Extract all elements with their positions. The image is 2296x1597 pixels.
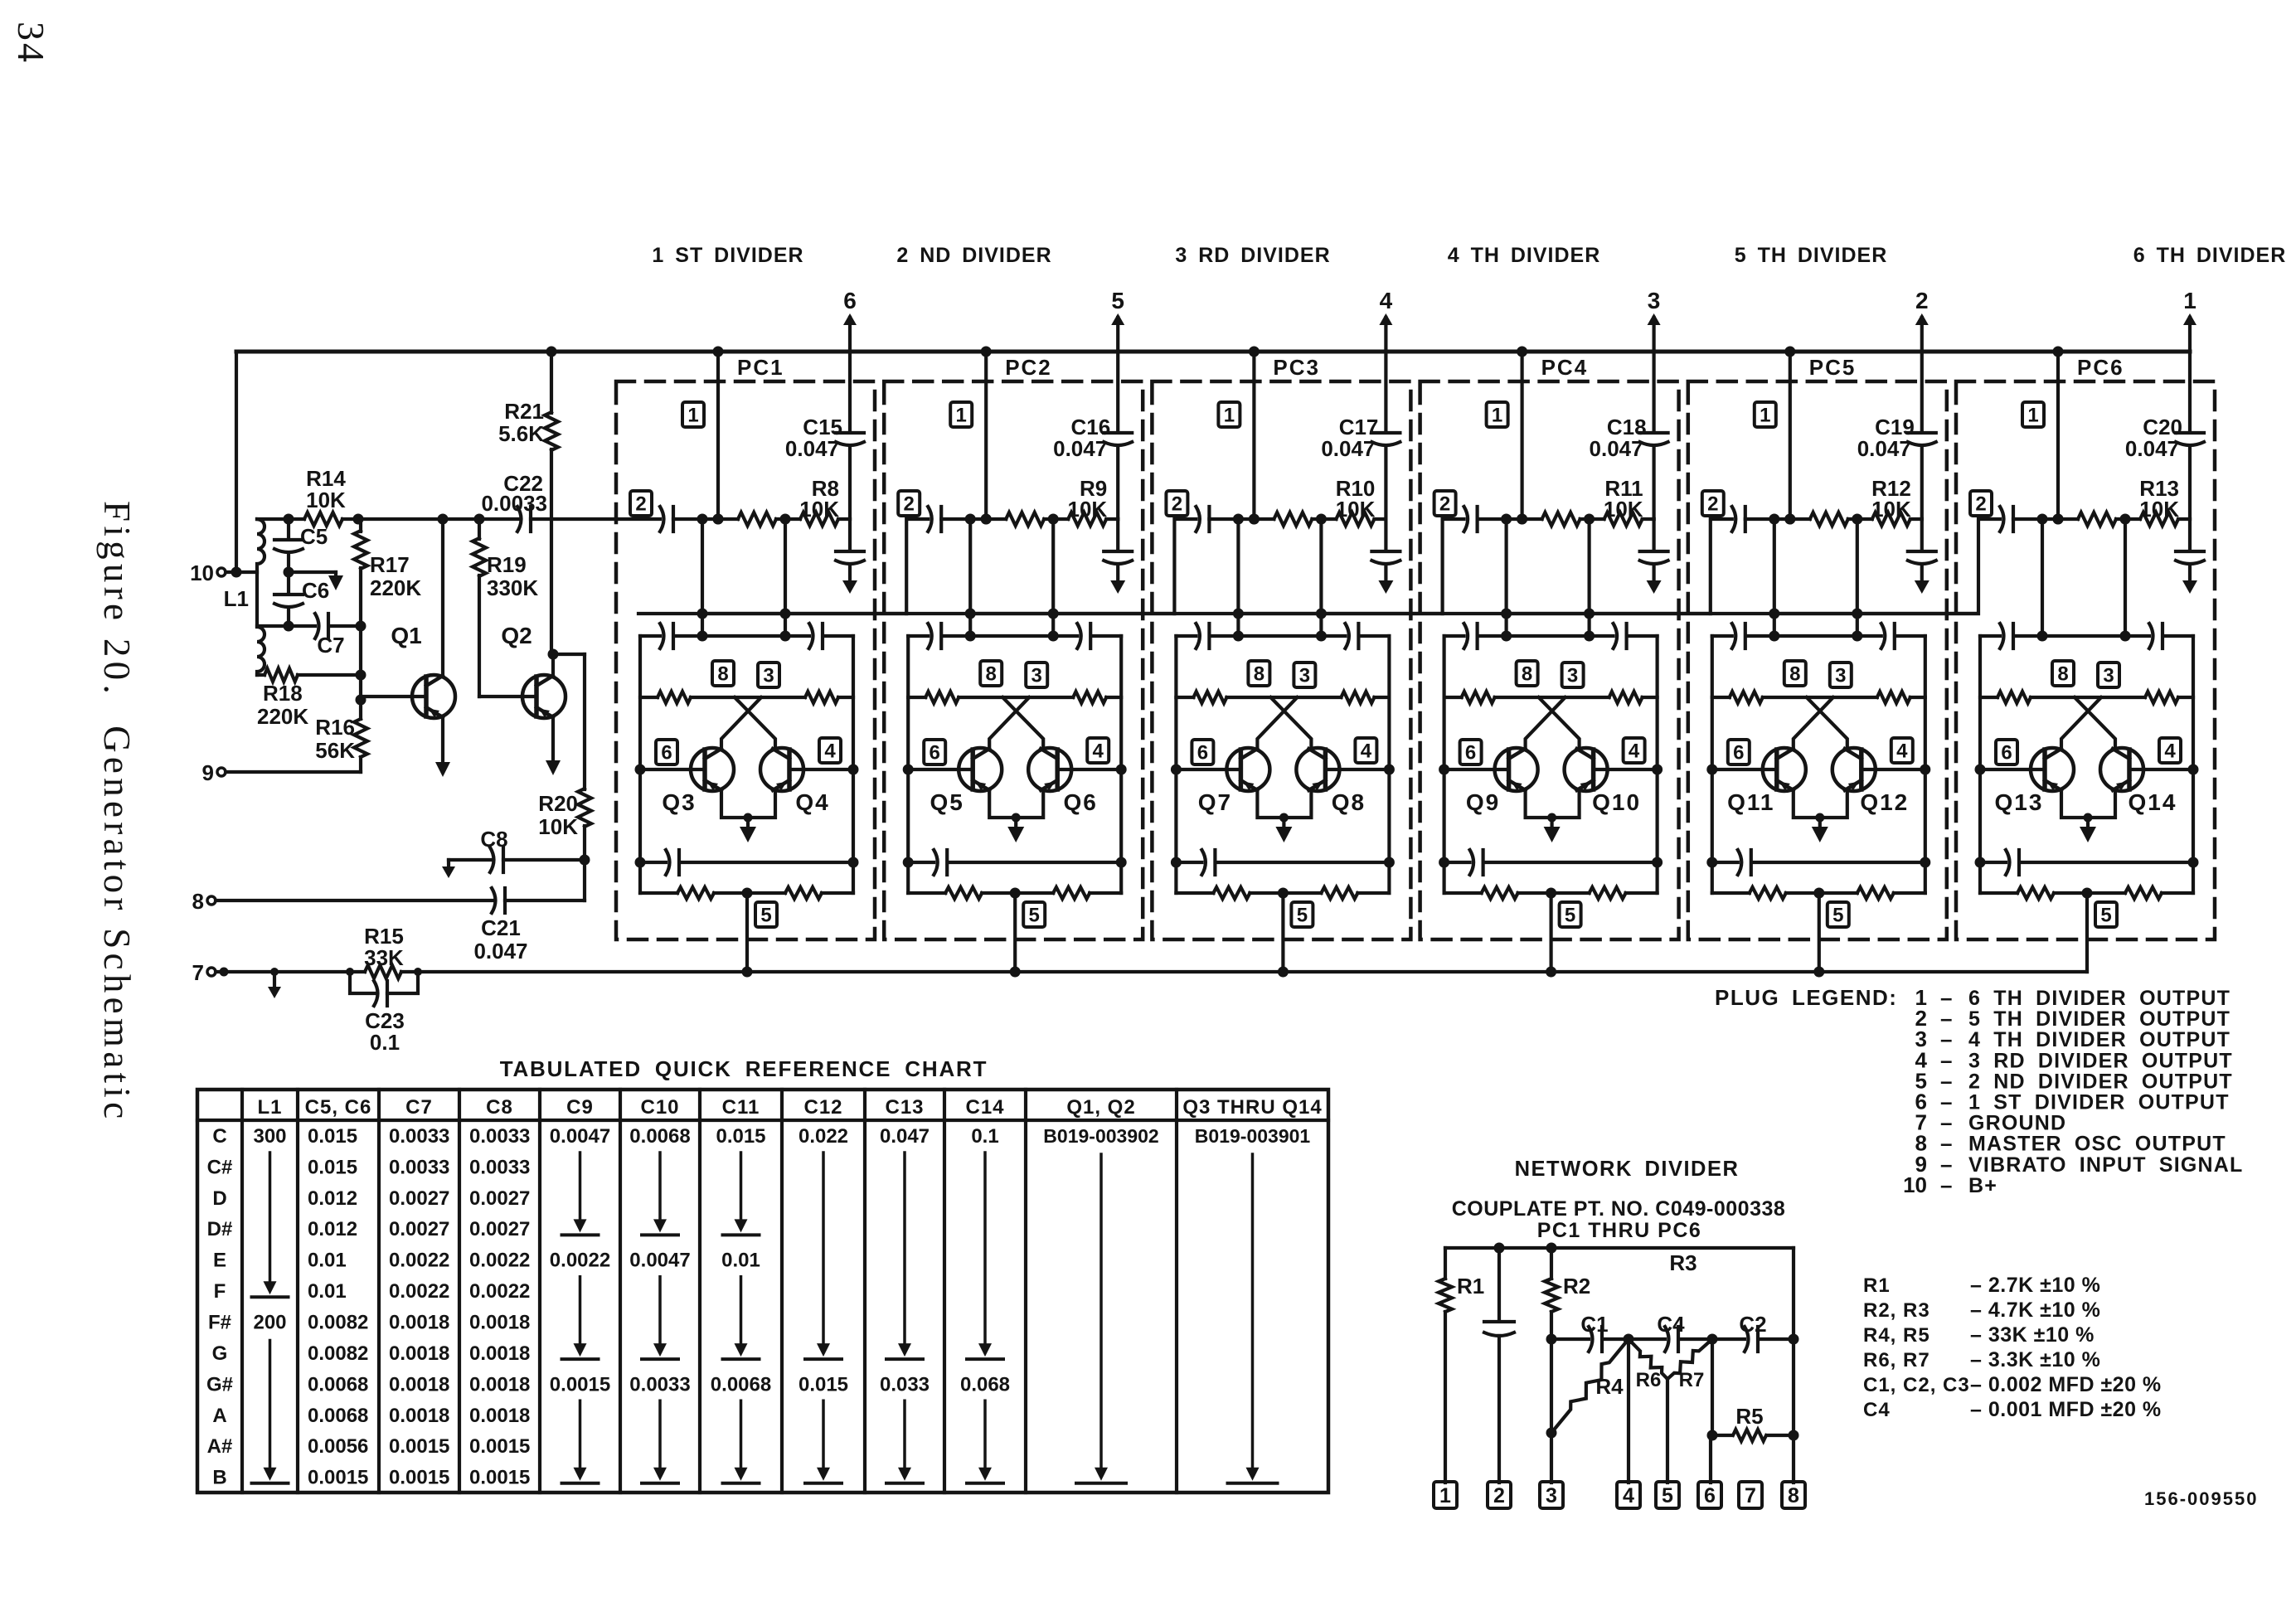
junction	[1584, 514, 1595, 525]
bottom resistor left stage 5	[1750, 887, 1786, 899]
capacitor C6	[287, 572, 290, 592]
network plug 3	[1540, 1482, 1563, 1508]
svg-text:5: 5	[2100, 905, 2111, 927]
svg-text:– 4.7K ±10 %: – 4.7K ±10 %	[1970, 1298, 2100, 1322]
svg-text:4: 4	[1623, 1484, 1634, 1507]
svg-text:5: 5	[1832, 905, 1843, 927]
junction	[1517, 514, 1527, 525]
base resistor left stage 3	[1193, 692, 1226, 703]
wire - left rail	[906, 636, 910, 893]
svg-text:– 2.7K ±10 %: – 2.7K ±10 %	[1970, 1274, 2100, 1297]
svg-text:0.0022: 0.0022	[550, 1250, 610, 1272]
svg-text:8: 8	[1522, 663, 1532, 686]
coupling capacitor (plug 2) stage 5	[1732, 507, 1736, 532]
svg-text:3 RD DIVIDER OUTPUT: 3 RD DIVIDER OUTPUT	[1968, 1049, 2233, 1072]
wire - B+ drop	[1252, 352, 1255, 519]
table arrow col C14	[983, 1153, 987, 1345]
wire - Q14 base	[2129, 768, 2193, 771]
svg-text:0.0018: 0.0018	[469, 1342, 530, 1365]
wire - left rail	[638, 636, 642, 893]
table arrow col C12	[822, 1400, 825, 1469]
svg-text:0.0022: 0.0022	[469, 1250, 530, 1272]
couplate dashed box PC6	[1956, 381, 2215, 939]
plug 2	[1702, 491, 1724, 516]
svg-text:R18: R18	[263, 681, 303, 706]
ground arrow (emitters)	[746, 818, 750, 831]
base resistor right stage 2	[1073, 692, 1106, 703]
wire - bottom cap row	[1444, 861, 1658, 864]
svg-text:2: 2	[1172, 493, 1182, 516]
base resistor left stage 4	[1462, 692, 1495, 703]
svg-text:0.0068: 0.0068	[308, 1373, 368, 1396]
wire - coupling riser	[1174, 519, 1464, 614]
plug 1	[2022, 402, 2044, 427]
wire - output drop	[1236, 519, 1240, 636]
svg-text:– 0.001 MFD ±20 %: – 0.001 MFD ±20 %	[1970, 1398, 2162, 1421]
bypass capacitor stage 2	[1104, 550, 1132, 553]
wire - row 8 (master osc output)	[216, 899, 585, 902]
plug 6	[1460, 740, 1482, 765]
plug 2	[1166, 491, 1187, 516]
resistor R15	[365, 965, 401, 978]
svg-text:C4: C4	[1657, 1312, 1685, 1337]
svg-text:3: 3	[2103, 665, 2114, 687]
wire - stem to row2	[2188, 448, 2192, 519]
svg-text:0.0068: 0.0068	[308, 1405, 368, 1427]
wire - Q2 base	[479, 695, 536, 698]
svg-text:2: 2	[1915, 288, 1929, 313]
svg-text:6: 6	[2001, 742, 2012, 765]
svg-text:0.0082: 0.0082	[308, 1312, 368, 1334]
svg-text:R7: R7	[1679, 1369, 1705, 1391]
svg-text:1 ST DIVIDER OUTPUT: 1 ST DIVIDER OUTPUT	[1968, 1091, 2230, 1114]
svg-text:0.047: 0.047	[880, 1125, 930, 1148]
svg-text:R1: R1	[1863, 1274, 1891, 1297]
resistor R9	[1068, 512, 1106, 526]
wire - output drop	[1504, 519, 1507, 636]
cross-coupling capacitor right stage 5	[1881, 624, 1886, 648]
svg-text:3: 3	[1835, 665, 1846, 687]
junction	[356, 621, 366, 632]
junction	[697, 514, 708, 525]
network plug 6	[1698, 1482, 1721, 1508]
wire - output drop	[968, 519, 972, 636]
svg-text:R5: R5	[1735, 1404, 1763, 1429]
plug 4	[1087, 738, 1109, 763]
svg-text:34: 34	[10, 22, 52, 65]
svg-text:Q4: Q4	[795, 789, 829, 815]
junction	[548, 649, 559, 660]
svg-text:PC5: PC5	[1809, 355, 1857, 380]
junction	[1233, 514, 1244, 525]
plug 6	[656, 740, 677, 765]
svg-text:C#: C#	[207, 1156, 233, 1178]
svg-text:R20: R20	[538, 791, 578, 816]
resistor R20	[583, 654, 586, 789]
svg-text:2: 2	[1707, 493, 1718, 516]
resistor R14	[304, 512, 342, 526]
wire - flipflop top rail	[1712, 634, 1925, 638]
svg-text:0.0018: 0.0018	[389, 1312, 449, 1334]
svg-text:D#: D#	[207, 1218, 233, 1240]
svg-text:PC4: PC4	[1541, 355, 1589, 380]
svg-text:– 0.002 MFD ±20 %: – 0.002 MFD ±20 %	[1970, 1373, 2162, 1396]
junction	[438, 514, 449, 525]
feedback capacitor stage 3	[1201, 850, 1206, 875]
wire - stem to row2	[848, 448, 852, 519]
plug 6	[1728, 740, 1750, 765]
table arrow col C9	[579, 1400, 582, 1469]
coupling capacitor (plug 2) stage 6	[2000, 507, 2004, 532]
transistor Q9	[1495, 748, 1538, 791]
resistor R2	[1550, 1248, 1553, 1279]
svg-text:0.047: 0.047	[473, 939, 527, 964]
wire + arrow to flip-flop	[1652, 566, 1655, 581]
junction	[474, 514, 485, 525]
wire - Q7 base	[1176, 768, 1240, 771]
junction	[2082, 888, 2093, 899]
wire - right leg to plug 8	[1792, 1248, 1795, 1483]
svg-text:C12: C12	[803, 1096, 842, 1119]
svg-text:6: 6	[1733, 742, 1744, 765]
svg-text:C5, C6: C5, C6	[305, 1096, 372, 1119]
wire - right rail	[2192, 636, 2195, 893]
svg-text:C5: C5	[300, 524, 328, 549]
svg-text:0.0018: 0.0018	[469, 1405, 530, 1427]
svg-text:Q6: Q6	[1064, 789, 1098, 815]
svg-text:C4: C4	[1863, 1399, 1891, 1421]
svg-text:–: –	[1940, 1172, 1952, 1197]
plug 5	[1291, 902, 1313, 927]
svg-text:6: 6	[843, 288, 857, 313]
network plug 1	[1434, 1482, 1457, 1508]
transistor Q4	[760, 748, 803, 791]
junction	[2053, 514, 2064, 525]
svg-text:5 TH DIVIDER: 5 TH DIVIDER	[1735, 244, 1888, 267]
svg-text:0.0022: 0.0022	[389, 1250, 449, 1272]
svg-text:– 3.3K ±10 %: – 3.3K ±10 %	[1970, 1348, 2100, 1371]
svg-text:Q9: Q9	[1466, 789, 1500, 815]
svg-text:4: 4	[1380, 288, 1393, 313]
junction	[353, 514, 364, 525]
base resistor right stage 4	[1609, 692, 1643, 703]
terminal 8	[207, 896, 216, 905]
wire - cross coupling X	[1807, 697, 1847, 748]
svg-text:C21: C21	[481, 915, 521, 940]
wire - Q12 base	[1862, 768, 1925, 771]
wire - right rail	[1924, 636, 1927, 893]
junction	[1048, 514, 1059, 525]
wire - emitter join	[1257, 789, 1311, 818]
ground arrow (emitters)	[1282, 818, 1285, 831]
base resistor left stage 6	[1997, 692, 2031, 703]
svg-text:156-009550: 156-009550	[2144, 1488, 2258, 1509]
wire - row2 (oscillator)	[257, 517, 616, 521]
capacitor C4	[1665, 1327, 1669, 1352]
svg-text:0.0033: 0.0033	[389, 1156, 449, 1178]
coupling capacitor (plug 2) stage 2	[928, 507, 932, 532]
svg-text:0.0022: 0.0022	[389, 1280, 449, 1303]
transistor Q10	[1565, 748, 1608, 791]
svg-text:1 ST DIVIDER: 1 ST DIVIDER	[652, 244, 803, 267]
wire - plug5 stem	[2085, 893, 2089, 972]
junction	[284, 567, 294, 578]
cross-coupling capacitor left stage 3	[1196, 624, 1200, 648]
svg-text:0.0068: 0.0068	[711, 1373, 771, 1396]
svg-text:NETWORK DIVIDER: NETWORK DIVIDER	[1515, 1158, 1740, 1181]
ground arrow (emitters)	[1014, 818, 1017, 831]
wire + arrow to flip-flop	[2188, 566, 2192, 581]
capacitor C19	[1908, 431, 1936, 434]
svg-text:GROUND: GROUND	[1968, 1112, 2066, 1135]
svg-text:R6, R7: R6, R7	[1863, 1349, 1930, 1371]
wire - left B+ drop to terminal 10	[235, 352, 238, 572]
wire - bottom rail	[640, 891, 853, 895]
table arrow col C12	[822, 1153, 825, 1345]
wire - base rail	[1444, 696, 1658, 699]
svg-text:Q8: Q8	[1332, 789, 1366, 815]
ground arrow (emitters)	[1550, 818, 1553, 831]
svg-text:0.015: 0.015	[799, 1373, 848, 1396]
junction	[713, 514, 724, 525]
svg-text:L1: L1	[257, 1096, 282, 1119]
wire - row2	[673, 517, 850, 521]
wire - Q2 emitter	[551, 716, 555, 765]
svg-text:0.0027: 0.0027	[469, 1187, 530, 1210]
wire - output drop	[701, 519, 704, 636]
wire - link row to next stage	[970, 612, 1174, 615]
svg-text:Q14: Q14	[2129, 789, 2177, 815]
bottom resistor right stage 6	[2125, 887, 2162, 899]
svg-text:8: 8	[2057, 663, 2068, 686]
wire - network middle row	[1551, 1337, 1794, 1341]
terminal 9	[217, 768, 226, 776]
wire - right rail	[852, 636, 855, 893]
svg-text:B: B	[212, 1467, 226, 1489]
base resistor left stage 1	[658, 692, 691, 703]
table arrow col C10	[658, 1400, 662, 1469]
svg-text:C1, C2, C3: C1, C2, C3	[1863, 1374, 1970, 1396]
svg-text:3: 3	[1299, 665, 1310, 687]
svg-text:C8: C8	[486, 1096, 513, 1119]
svg-text:10K: 10K	[1067, 497, 1107, 522]
svg-text:10K: 10K	[538, 814, 578, 839]
transistor Q14	[2100, 748, 2143, 791]
svg-text:10K: 10K	[1604, 497, 1643, 522]
wire - row2	[1478, 517, 1654, 521]
junction	[580, 855, 590, 866]
plug 6	[924, 740, 945, 765]
svg-text:300: 300	[253, 1125, 286, 1148]
svg-text:C10: C10	[640, 1096, 679, 1119]
table arrow col L1	[269, 1341, 272, 1469]
plug 3	[1562, 663, 1584, 687]
bottom resistor right stage 2	[1053, 887, 1090, 899]
transistor Q6	[1028, 748, 1071, 791]
plug 2	[898, 491, 920, 516]
svg-text:33K: 33K	[364, 945, 404, 970]
wire - plug5 stem	[1818, 893, 1821, 972]
wire - flipflop top rail	[640, 634, 853, 638]
svg-text:2: 2	[1493, 1484, 1505, 1507]
wire - bottom cap row	[908, 861, 1121, 864]
svg-text:1: 1	[687, 405, 698, 427]
svg-text:B+: B+	[1968, 1174, 1997, 1197]
wire - C7 row	[257, 624, 361, 628]
wire - right rail	[1119, 636, 1123, 893]
svg-text:0.047: 0.047	[1053, 436, 1107, 461]
plug 5	[1828, 902, 1849, 927]
base resistor left stage 2	[925, 692, 959, 703]
resistor R11	[1604, 512, 1643, 526]
wire - flipflop top rail	[1444, 634, 1658, 638]
svg-text:0.0033: 0.0033	[389, 1125, 449, 1148]
wire - input drop	[1319, 519, 1323, 636]
plug 8	[1517, 661, 1538, 686]
svg-text:0.0033: 0.0033	[469, 1125, 530, 1148]
plug 1	[1487, 402, 1508, 427]
plug 8	[1784, 661, 1806, 686]
svg-text:3: 3	[1032, 665, 1042, 687]
wire - coupling riser	[906, 519, 1196, 614]
wire - right rail	[1655, 636, 1658, 893]
network plug 8	[1782, 1482, 1805, 1508]
svg-text:10K: 10K	[306, 488, 346, 512]
wire - Q5 base	[908, 768, 973, 771]
bottom resistor left stage 3	[1213, 887, 1250, 899]
svg-text:0.047: 0.047	[1857, 436, 1911, 461]
svg-text:C14: C14	[965, 1096, 1004, 1119]
svg-text:2 ND DIVIDER OUTPUT: 2 ND DIVIDER OUTPUT	[1968, 1070, 2233, 1093]
junction	[2120, 514, 2131, 525]
bypass capacitor stage 1	[836, 550, 864, 553]
svg-text:C2: C2	[1739, 1312, 1766, 1337]
wire - cross coupling X	[735, 697, 775, 748]
junction	[1707, 1334, 1718, 1345]
svg-text:PC6: PC6	[2077, 355, 2124, 380]
capacitor C15	[836, 431, 864, 434]
svg-text:R2: R2	[1563, 1274, 1590, 1298]
svg-text:Q11: Q11	[1727, 789, 1774, 815]
table arrow col L1	[269, 1153, 272, 1283]
wire - coupling riser	[638, 519, 928, 614]
wire - Q9 base	[1444, 768, 1509, 771]
junction	[1501, 514, 1512, 525]
plug 2	[1970, 491, 1992, 516]
cross-coupling capacitor left stage 4	[1464, 624, 1468, 648]
base resistor left stage 5	[1730, 692, 1763, 703]
svg-text:1: 1	[2027, 405, 2038, 427]
svg-text:R3: R3	[1669, 1250, 1697, 1275]
junction	[1546, 888, 1556, 899]
table frame	[197, 1090, 1328, 1493]
svg-text:0.0015: 0.0015	[550, 1373, 610, 1396]
wire - input drop	[1587, 519, 1590, 636]
svg-text:F: F	[214, 1280, 226, 1303]
plug 4	[1624, 738, 1645, 763]
resistor (divider net) stage 5	[1810, 512, 1848, 526]
svg-text:VIBRATO INPUT SIGNAL: VIBRATO INPUT SIGNAL	[1968, 1153, 2244, 1177]
svg-text:10: 10	[190, 561, 214, 585]
svg-text:5 TH DIVIDER OUTPUT: 5 TH DIVIDER OUTPUT	[1968, 1007, 2230, 1031]
wire - input drop	[1856, 519, 1859, 636]
svg-text:0.0015: 0.0015	[469, 1467, 530, 1489]
wire - plug5 stem	[1549, 893, 1552, 972]
plug 6	[1192, 740, 1213, 765]
bottom resistor left stage 4	[1482, 887, 1518, 899]
wire - Q13 base	[1980, 768, 2045, 771]
table column lines	[240, 1090, 244, 1493]
svg-text:3 RD DIVIDER: 3 RD DIVIDER	[1175, 244, 1330, 267]
table arrow col Q1, Q2	[1099, 1154, 1103, 1469]
junction	[1813, 888, 1824, 899]
svg-text:5: 5	[1111, 288, 1124, 313]
svg-text:0.0027: 0.0027	[389, 1187, 449, 1210]
svg-text:5: 5	[1297, 905, 1308, 927]
resistor R8	[800, 512, 838, 526]
cross-coupling capacitor left stage 2	[928, 624, 932, 648]
junction	[1546, 1334, 1557, 1345]
svg-text:0.0018: 0.0018	[389, 1342, 449, 1365]
junction	[965, 514, 976, 525]
svg-text:0.1: 0.1	[370, 1030, 400, 1055]
ground arrow	[273, 972, 276, 988]
svg-text:L1: L1	[224, 586, 249, 611]
wire - Q1 base	[361, 695, 426, 698]
svg-text:Q10: Q10	[1592, 789, 1641, 815]
svg-text:R19: R19	[487, 552, 527, 577]
svg-text:A#: A#	[207, 1435, 233, 1458]
wire - input drop	[2124, 519, 2127, 636]
capacitor C20	[2176, 431, 2204, 434]
svg-text:R1: R1	[1457, 1274, 1484, 1298]
wire - row2 input	[616, 517, 660, 521]
plug 3	[758, 663, 779, 687]
svg-text:Q5: Q5	[930, 789, 964, 815]
resistor R6	[1629, 1339, 1667, 1379]
plug 5	[755, 902, 777, 927]
svg-text:G: G	[212, 1342, 228, 1365]
svg-text:8: 8	[1254, 663, 1264, 686]
svg-text:0.012: 0.012	[308, 1187, 357, 1210]
bottom resistor right stage 1	[785, 887, 822, 899]
base resistor right stage 3	[1341, 692, 1374, 703]
svg-text:4: 4	[824, 740, 836, 763]
svg-text:D: D	[212, 1187, 226, 1210]
svg-text:0.01: 0.01	[308, 1250, 347, 1272]
svg-text:PC1: PC1	[737, 355, 784, 380]
resistor R12	[1872, 512, 1910, 526]
wire - Q2 collector	[551, 654, 555, 677]
svg-text:PC1 THRU PC6: PC1 THRU PC6	[1537, 1219, 1702, 1242]
svg-text:4 TH DIVIDER: 4 TH DIVIDER	[1448, 244, 1601, 267]
svg-text:0.0033: 0.0033	[469, 1156, 530, 1178]
table arrow col C11	[740, 1400, 743, 1469]
svg-text:0.0015: 0.0015	[469, 1435, 530, 1458]
svg-text:5: 5	[1662, 1484, 1673, 1507]
transistor Q7	[1226, 748, 1269, 791]
svg-text:C6: C6	[302, 578, 329, 603]
svg-text:Q13: Q13	[1995, 789, 2044, 815]
svg-text:10K: 10K	[799, 497, 839, 522]
svg-text:Q1, Q2: Q1, Q2	[1066, 1096, 1135, 1119]
wire - bottom cap row	[1176, 861, 1389, 864]
cross-coupling capacitor right stage 4	[1614, 624, 1618, 648]
junction	[284, 621, 294, 632]
wire - cross coupling X	[1539, 697, 1580, 748]
bottom resistor right stage 3	[1321, 887, 1357, 899]
junction	[1010, 888, 1021, 899]
